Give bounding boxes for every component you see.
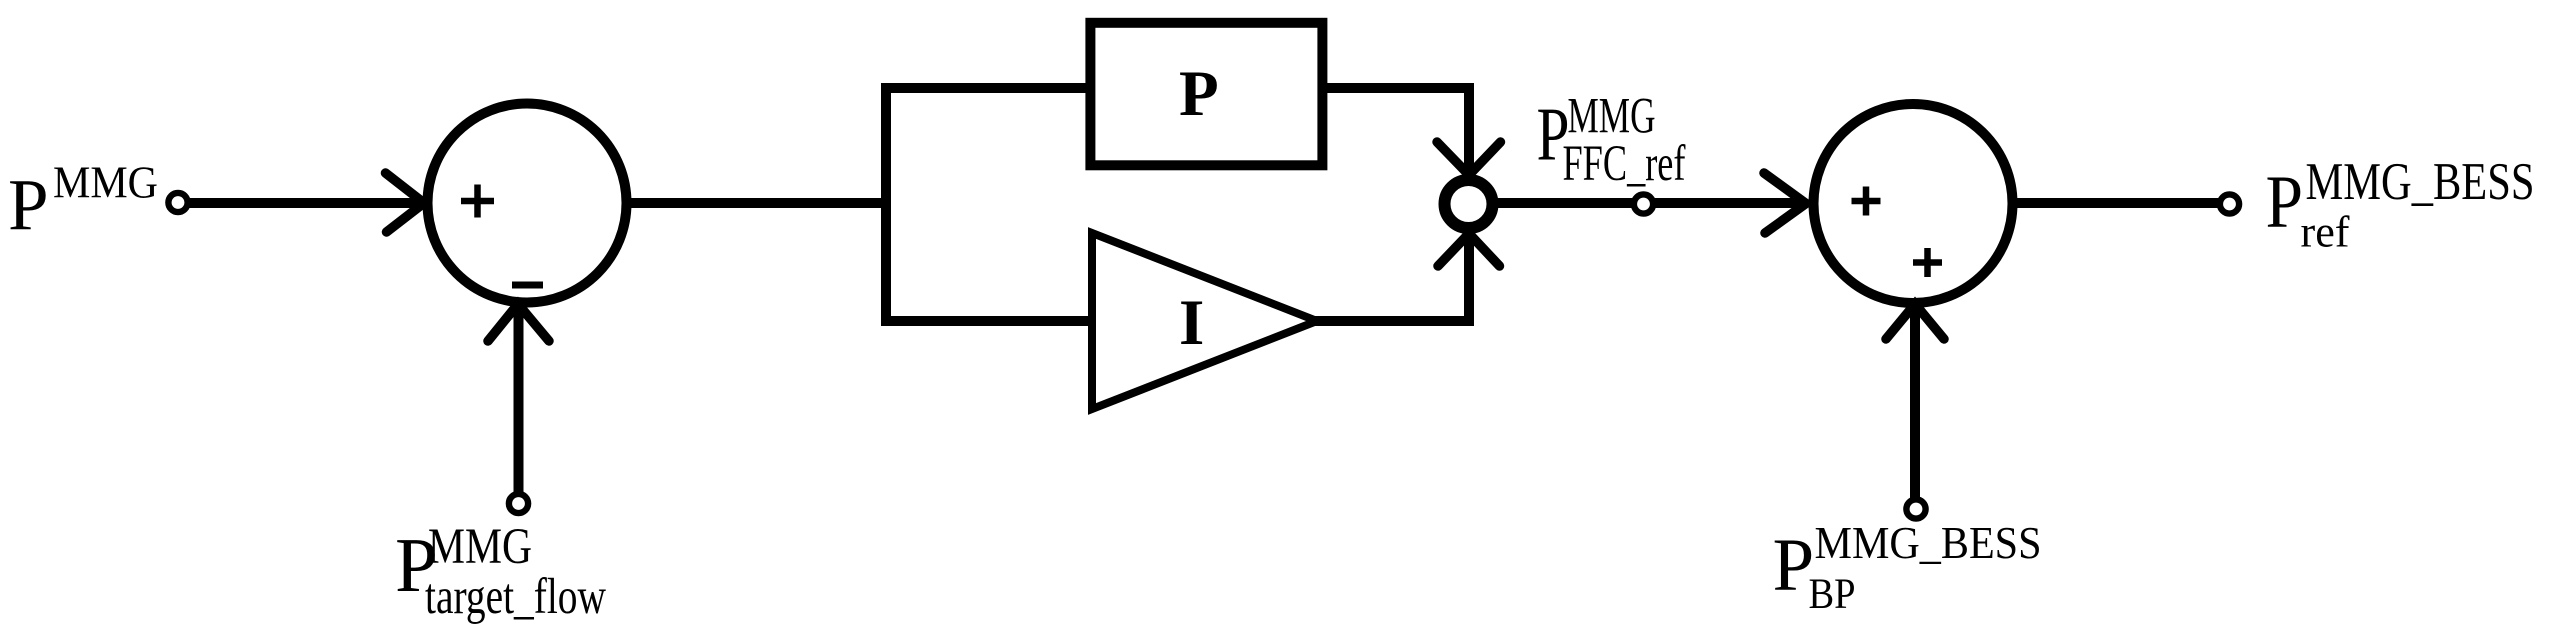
plus sign in S2 lower [1913, 248, 1942, 277]
wire S1 bottom input vertical [514, 311, 524, 494]
terminal node PFFC_ref [1634, 194, 1653, 213]
arrowhead into S2 bottom [1886, 304, 1944, 339]
terminal input Ptarget_flow [509, 494, 528, 513]
wire junction output to summing junction S2 [1490, 198, 1800, 208]
wire top branch to P block [881, 83, 1086, 93]
svg-text:MMG: MMG [428, 519, 532, 575]
svg-text:target_flow: target_flow [425, 569, 606, 625]
svg-text:P: P [1179, 58, 1219, 130]
svg-text:ref: ref [2301, 208, 2350, 257]
svg-text:MMG: MMG [53, 158, 158, 208]
arrowhead into junction top [1437, 142, 1501, 175]
wire P block to junction vertical [1327, 83, 1474, 176]
svg-text:I: I [1179, 287, 1204, 359]
wire bottom branch to I block [881, 316, 1092, 326]
terminal input PMMG [168, 193, 187, 212]
wire input PMMG to summing junction S1 [187, 198, 426, 208]
mixing junction node [1445, 180, 1493, 228]
summing junction S2 [1814, 104, 2013, 303]
wire S2 bottom input vertical [1910, 310, 1920, 499]
svg-text:MMG_BESS: MMG_BESS [2306, 153, 2535, 211]
svg-text:P: P [8, 165, 49, 246]
arrowhead into junction bottom [1438, 234, 1500, 267]
svg-text:FFC_ref: FFC_ref [1563, 136, 1686, 192]
arrowhead into S1 bottom [488, 304, 549, 341]
wire S2 output to terminal [2013, 198, 2220, 208]
svg-text:BP: BP [1809, 571, 1856, 618]
summing junction S1 [428, 104, 627, 303]
svg-text:MMG_BESS: MMG_BESS [1815, 517, 2042, 568]
arrowhead into S1 left [386, 173, 425, 232]
terminal input PBP [1906, 499, 1925, 518]
wire S1 output to branch node [627, 198, 891, 208]
arrowhead into S2 left [1764, 173, 1806, 233]
terminal output Pref [2220, 194, 2239, 213]
svg-text:P: P [2266, 161, 2304, 244]
block P (proportional) [1090, 23, 1322, 166]
plus sign in S2 upper [1852, 187, 1881, 216]
minus sign in S1 [512, 282, 543, 289]
block I (integrator) triangle [1092, 233, 1317, 409]
plus sign in S1 [461, 185, 494, 218]
wire branch vertical at node [881, 83, 891, 326]
wire I block output to junction [1313, 234, 1469, 321]
